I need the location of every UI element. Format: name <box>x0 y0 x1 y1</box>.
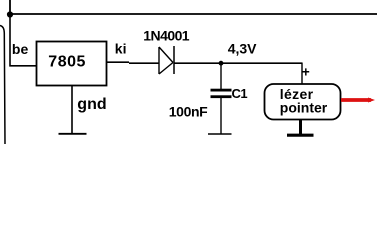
svg-text:+: + <box>302 64 310 79</box>
wire: left rail entering from left edge, curving down <box>0 26 5 145</box>
svg-text:be: be <box>12 41 29 57</box>
laser beam (red) <box>341 98 371 102</box>
capacitor C1 top plate <box>211 89 232 92</box>
wire: input drop from junction to 7805 input <box>10 14 36 66</box>
ground: bar under 7805 <box>59 133 87 135</box>
wire: top feed from image top edge <box>9 0 11 14</box>
wire: 7805 output to diode <box>107 61 129 63</box>
wire: C1 top lead <box>220 63 222 89</box>
capacitor C1 bottom plate <box>211 95 232 98</box>
wire: C1 bottom lead <box>220 98 222 134</box>
wire: 7805 ground lead <box>71 86 73 134</box>
node A: junction dot top-left <box>7 11 13 17</box>
wire: corner drop into laser + terminal <box>301 63 303 85</box>
wire: top horizontal rail <box>10 13 377 15</box>
svg-text:7805: 7805 <box>48 54 86 71</box>
diode D1 cathode bar <box>173 46 175 74</box>
node B: junction dot at C1 tap <box>219 61 224 66</box>
svg-text:100nF: 100nF <box>169 103 208 119</box>
ground: bar under C1 <box>208 133 232 135</box>
wire: diode anode segment <box>129 62 159 64</box>
svg-text:1N4001: 1N4001 <box>143 27 190 43</box>
ground: bar under laser (thick) <box>287 134 314 137</box>
svg-text:gnd: gnd <box>77 96 106 113</box>
wire: laser ground lead (thick) <box>299 120 302 137</box>
diode D1 1N4001 triangle <box>159 47 173 74</box>
svg-text:ki: ki <box>115 40 127 56</box>
regulator U1 7805 box <box>37 42 107 86</box>
laser pointer module box <box>265 84 341 120</box>
wire: diode cathode to laser corner <box>174 62 302 64</box>
svg-text:4,3V: 4,3V <box>228 40 257 56</box>
svg-text:pointer: pointer <box>280 100 328 116</box>
svg-text:C1: C1 <box>232 86 248 101</box>
